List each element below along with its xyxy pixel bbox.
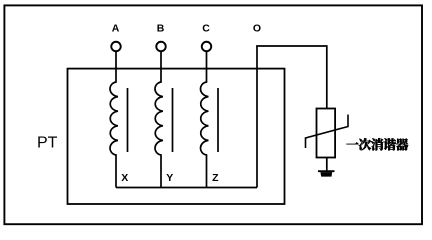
ground symbol xyxy=(318,171,335,176)
transformer PT enclosure box xyxy=(68,69,285,204)
arrester body (一次消谐器) xyxy=(317,109,336,158)
core bar C xyxy=(217,88,219,152)
terminal B xyxy=(156,42,166,52)
winding B (wire + coil) xyxy=(155,51,163,187)
winding C (wire + coil) xyxy=(200,51,208,187)
winding A (wire + coil) xyxy=(110,51,118,187)
svg-text:O: O xyxy=(253,23,261,35)
core bar A xyxy=(127,88,129,152)
svg-text:Z: Z xyxy=(212,172,219,184)
svg-text:C: C xyxy=(202,23,210,35)
wire arrester to ground xyxy=(326,158,328,172)
svg-text:A: A xyxy=(112,23,120,35)
neutral riser wire to O xyxy=(256,46,258,188)
svg-text:B: B xyxy=(157,23,165,35)
wire O to arrester xyxy=(256,46,327,109)
label 一次消谐器 xyxy=(346,138,408,150)
terminal A xyxy=(111,42,121,52)
svg-text:PT: PT xyxy=(37,135,58,152)
varistor diagonal stroke xyxy=(306,115,349,149)
terminal C xyxy=(202,42,212,52)
svg-text:X: X xyxy=(121,172,128,184)
core bar B xyxy=(172,88,174,152)
svg-text:Y: Y xyxy=(166,172,173,184)
neutral bus wire (winding bottoms) xyxy=(116,187,257,189)
